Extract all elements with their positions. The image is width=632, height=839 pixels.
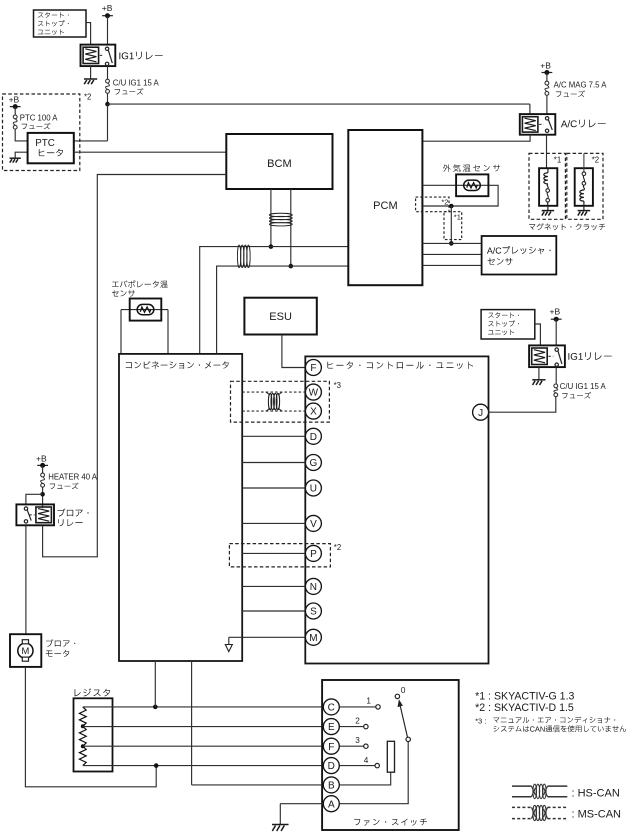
svg-text:*2: *2 [441, 198, 448, 207]
svg-text:1: 1 [366, 697, 371, 706]
svg-text:A: A [328, 799, 335, 810]
svg-text:+B: +B [9, 95, 20, 105]
svg-text:*2: *2 [334, 543, 341, 552]
svg-text:PCM: PCM [373, 200, 397, 212]
svg-text:PTC: PTC [35, 138, 55, 149]
svg-text:D: D [328, 761, 335, 772]
svg-text:*3: *3 [334, 381, 341, 390]
svg-text:*2 : SKYACTIV-D 1.5: *2 : SKYACTIV-D 1.5 [475, 702, 574, 714]
svg-text:*2: *2 [592, 156, 599, 165]
svg-text:*1: *1 [454, 213, 461, 222]
svg-text:N: N [310, 582, 317, 593]
svg-text:*3 :: *3 : [475, 716, 486, 725]
svg-text:X: X [310, 407, 317, 418]
svg-text:S: S [310, 607, 317, 618]
svg-text:: HS-CAN: : HS-CAN [572, 787, 620, 799]
svg-text:P: P [310, 549, 317, 560]
svg-text:F: F [328, 742, 334, 753]
svg-text:M: M [309, 633, 317, 644]
svg-text:M: M [21, 645, 29, 656]
svg-text:V: V [310, 519, 317, 530]
svg-text:*1: *1 [554, 156, 561, 165]
svg-text:U: U [310, 484, 317, 495]
svg-text:*2: *2 [84, 92, 91, 101]
svg-text:W: W [309, 388, 319, 399]
svg-text:*1 : SKYACTIV-G 1.3: *1 : SKYACTIV-G 1.3 [475, 690, 574, 702]
svg-text:F: F [310, 363, 316, 374]
svg-text:+B: +B [550, 306, 561, 316]
svg-text:0: 0 [401, 686, 406, 695]
svg-text:PTC 100 A: PTC 100 A [20, 113, 59, 122]
svg-text:D: D [310, 432, 317, 443]
svg-text:A/C MAG 7.5 A: A/C MAG 7.5 A [554, 81, 608, 90]
svg-text:J: J [478, 408, 483, 419]
svg-text:E: E [328, 722, 335, 733]
svg-text:BCM: BCM [267, 158, 291, 170]
svg-text:C/U IG1 15 A: C/U IG1 15 A [560, 382, 607, 391]
svg-text:C/U IG1 15 A: C/U IG1 15 A [113, 78, 160, 87]
svg-text:4: 4 [364, 756, 369, 765]
svg-text:3: 3 [355, 736, 360, 745]
svg-text:+B: +B [102, 3, 113, 13]
svg-text:ESU: ESU [269, 311, 292, 323]
svg-text:HEATER 40 A: HEATER 40 A [48, 473, 98, 482]
svg-text:+B: +B [36, 453, 47, 463]
svg-text:B: B [328, 781, 335, 792]
svg-text:+B: +B [540, 61, 551, 71]
svg-text:C: C [328, 703, 335, 714]
svg-text:: MS-CAN: : MS-CAN [572, 809, 622, 821]
svg-text:G: G [310, 458, 318, 469]
svg-text:2: 2 [355, 716, 360, 725]
